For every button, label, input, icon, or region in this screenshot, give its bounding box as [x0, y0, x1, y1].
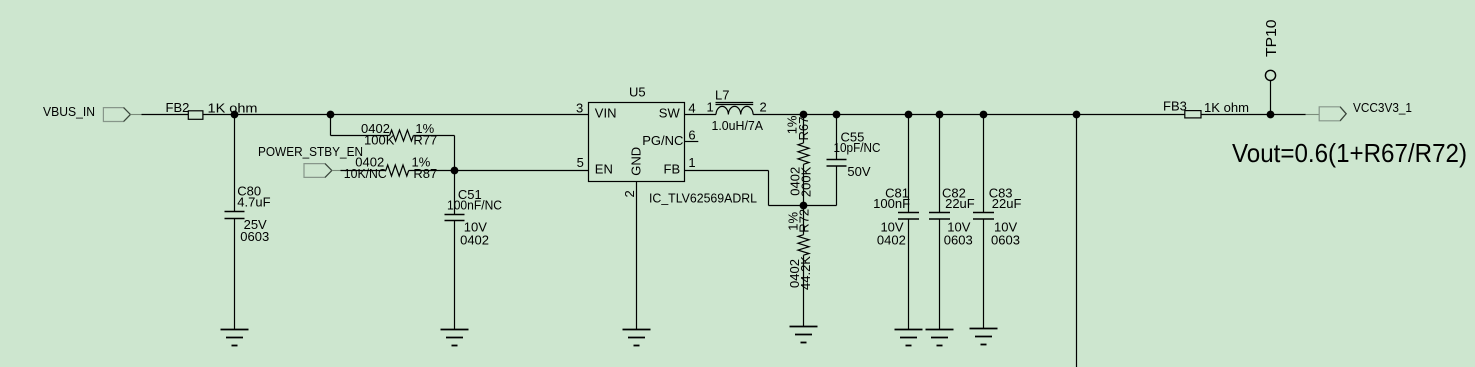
- wire FB3 to port: [1201, 114, 1306, 116]
- svg-text:1K ohm: 1K ohm: [1204, 100, 1249, 115]
- svg-text:R87: R87: [413, 166, 437, 181]
- svg-text:0402: 0402: [460, 232, 489, 247]
- svg-text:22uF: 22uF: [945, 196, 975, 211]
- capacitor C81: [873, 115, 919, 330]
- ground C80: [221, 330, 249, 346]
- svg-text:2: 2: [760, 100, 767, 115]
- ground C51: [441, 330, 469, 346]
- capacitor C55: [827, 115, 881, 206]
- wire R87 to EN: [409, 170, 589, 172]
- capacitor C80: [225, 115, 271, 330]
- wire tap down: [1076, 115, 1078, 367]
- svg-text:4.7uF: 4.7uF: [237, 194, 270, 209]
- svg-text:PG/NC: PG/NC: [642, 133, 683, 148]
- svg-text:FB: FB: [664, 162, 681, 177]
- svg-text:EN: EN: [595, 162, 613, 177]
- svg-text:1: 1: [707, 100, 714, 115]
- wire FB2 to U5 VIN: [203, 114, 589, 116]
- svg-text:0603: 0603: [991, 233, 1020, 248]
- capacitor C83: [973, 115, 1021, 329]
- port POWER_STBY_EN: [258, 144, 363, 177]
- capacitor C51: [445, 171, 503, 330]
- svg-text:200K: 200K: [799, 166, 814, 197]
- wire PG/NC stub: [685, 141, 699, 143]
- svg-text:2: 2: [622, 190, 637, 197]
- IC U5 body: [589, 85, 758, 206]
- svg-text:50V: 50V: [847, 164, 870, 179]
- svg-text:1: 1: [688, 155, 695, 170]
- svg-text:POWER_STBY_EN: POWER_STBY_EN: [258, 144, 363, 159]
- test point TP10: [1263, 20, 1280, 115]
- node junction tap: [1073, 111, 1081, 119]
- svg-text:L7: L7: [715, 88, 729, 103]
- svg-text:1.0uH/7A: 1.0uH/7A: [712, 118, 764, 133]
- svg-text:VIN: VIN: [595, 106, 617, 121]
- node junction C80: [231, 111, 239, 119]
- svg-text:IC_TLV62569ADRL: IC_TLV62569ADRL: [649, 191, 757, 206]
- resistor R87: [341, 155, 438, 182]
- svg-text:TP10: TP10: [1263, 20, 1280, 58]
- ferrite bead FB2: [166, 100, 258, 119]
- svg-text:22uF: 22uF: [992, 196, 1022, 211]
- wire SW to L7: [685, 114, 717, 116]
- resistor R72: [786, 206, 814, 327]
- svg-text:6: 6: [688, 128, 695, 143]
- ferrite bead FB3: [1163, 99, 1249, 118]
- wire U5 GND to ground: [636, 182, 638, 330]
- node junction R77: [327, 111, 335, 119]
- svg-text:100nF/NC: 100nF/NC: [447, 198, 502, 213]
- svg-text:FB3: FB3: [1163, 99, 1187, 114]
- port VBUS_IN: [43, 104, 143, 122]
- port VCC3V3_1: [1306, 100, 1412, 121]
- svg-text:VCC3V3_1: VCC3V3_1: [1353, 100, 1412, 115]
- ground C81: [895, 330, 923, 346]
- svg-text:R77: R77: [413, 133, 437, 148]
- ground U5: [623, 330, 651, 346]
- svg-text:0402: 0402: [877, 233, 906, 248]
- svg-text:R67: R67: [796, 117, 811, 141]
- ground C83: [970, 329, 998, 345]
- ground R72: [790, 327, 818, 343]
- svg-text:0603: 0603: [240, 229, 269, 244]
- node junction C55: [833, 111, 841, 119]
- node junction FB: [800, 202, 808, 210]
- svg-text:Vout=0.6(1+R67/R72): Vout=0.6(1+R67/R72): [1232, 138, 1467, 168]
- node junction R67: [800, 111, 808, 119]
- node junction TP10: [1267, 111, 1275, 119]
- resistor R67: [785, 115, 814, 206]
- svg-text:GND: GND: [628, 147, 643, 176]
- svg-text:VBUS_IN: VBUS_IN: [43, 104, 95, 119]
- wire L7 to FB3 (output rail): [753, 114, 1185, 116]
- svg-text:SW: SW: [659, 106, 681, 121]
- svg-text:R72: R72: [797, 209, 812, 233]
- svg-text:0603: 0603: [944, 233, 973, 248]
- svg-text:10pF/NC: 10pF/NC: [834, 140, 881, 155]
- node junction EN/C51: [451, 167, 459, 175]
- wire VBUS to FB2: [142, 114, 189, 116]
- node junction C83: [980, 111, 988, 119]
- svg-text:44.2K: 44.2K: [798, 256, 813, 290]
- svg-text:3: 3: [576, 101, 583, 116]
- resistor R77: [331, 115, 455, 171]
- node junction C81: [905, 111, 913, 119]
- wire FB net: [685, 171, 837, 206]
- node junction C82: [936, 111, 944, 119]
- svg-text:4: 4: [688, 101, 695, 116]
- svg-text:5: 5: [577, 155, 584, 170]
- svg-text:10K/NC: 10K/NC: [344, 166, 387, 181]
- inductor L7: [707, 88, 767, 134]
- svg-text:100nF: 100nF: [873, 196, 910, 211]
- svg-text:U5: U5: [629, 85, 646, 100]
- ground C82: [926, 330, 954, 346]
- svg-text:FB2: FB2: [166, 100, 190, 115]
- capacitor C82: [929, 115, 975, 330]
